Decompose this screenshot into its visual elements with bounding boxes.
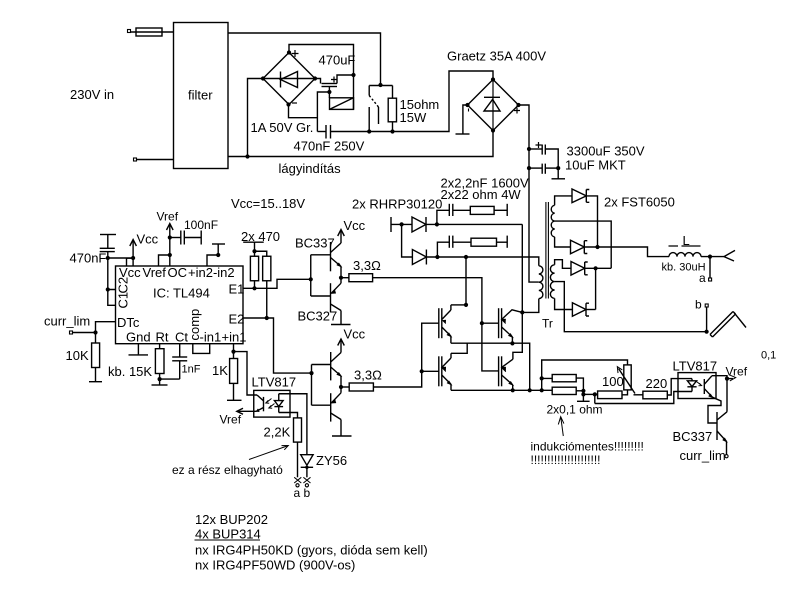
node (right gate riser split) [480, 321, 484, 325]
opto2 phototransistor [704, 376, 713, 398]
wire (bridge2 right to HV cap rail down to primary center tap) [519, 105, 539, 282]
wire (curr_lim to DTc) [73, 322, 116, 333]
node (ZY56 cathode) [305, 466, 308, 469]
IGBT Q1 (top left) [439, 305, 452, 343]
snubber1 riser wire [437, 210, 449, 224]
svg-text:kb. 15K: kb. 15K [108, 364, 152, 379]
capacitor C9 Ct 1nF [172, 344, 187, 379]
node (bridge2 bottom) [491, 128, 495, 132]
transformer secondary B winding (right of core, bottom) [550, 265, 554, 299]
wire (R14 right to sense node) [576, 390, 583, 392]
svg-text:OC: OC [168, 265, 188, 280]
svg-text:L: L [683, 233, 690, 248]
svg-text:2,2K: 2,2K [264, 425, 291, 440]
svg-text:Vcc=15..18V: Vcc=15..18V [231, 196, 305, 211]
diode D5 FST6050 [571, 262, 588, 276]
wire (driver2 emitter junction) [340, 376, 342, 393]
zener ZY56 [301, 455, 313, 478]
signal arrow Vref (feedback) [727, 375, 736, 381]
wire (C1C2 node down, C2 and C1 taps into IC) [108, 258, 116, 305]
opto2 light arrows [697, 382, 702, 386]
wire (D4 cathode through output node to inductor) [584, 247, 669, 257]
wire (R13 right to sense node) [576, 378, 583, 394]
node (driver2 output) [339, 385, 343, 389]
wire (secondary A bottom to D4 anode) [555, 237, 571, 247]
wire (bottom rail filter to bridge2) [228, 131, 493, 157]
wire (secondary B bottom to D6 anode) [555, 298, 573, 309]
node (relay contact top feed) [378, 83, 382, 87]
node (inductor output / a tap) [708, 255, 712, 259]
node (bridge1 left) [261, 76, 265, 80]
wire (D6 cathode to tie line) [586, 309, 596, 311]
svg-text:2x RHRP30120: 2x RHRP30120 [352, 197, 442, 212]
resistor R6 Rt kb.15K [155, 344, 164, 379]
wire (+in2 stub to tie bar) [217, 244, 219, 255]
svg-text:-in1: -in1 [200, 330, 222, 345]
wire (opto1 LED anode to ZY56 branch) [279, 394, 307, 455]
resistor R15 (series under 100) [598, 391, 622, 399]
label + (470uF) [331, 77, 337, 83]
wire (opto2 collector to Vref node) [712, 376, 727, 379]
terminal circle (curr_lim out) [725, 455, 728, 458]
node (emitter rail drop on bottom rail) [528, 388, 532, 392]
wire (470 pair top tie) [255, 242, 267, 256]
resistor R13 0,1 ohm [552, 375, 576, 382]
wire (diode rail1 drop to Q4 collector) [513, 224, 522, 359]
opto2 LED [687, 379, 696, 392]
svg-text:Tr: Tr [542, 317, 553, 331]
emitter rail (top IGBT pair) [451, 343, 530, 390]
transistor Q5 BC337 (driver1 NPN) [331, 242, 342, 271]
resistor R10 470 [263, 256, 271, 281]
node (C1-C2 pin node) [106, 256, 110, 260]
label + (bridge2) [514, 108, 520, 114]
capacitor C5 10uF MKT [529, 164, 558, 174]
wire (D5 cathode to center-tap drop) [585, 267, 612, 269]
svg-text:100nF: 100nF [184, 218, 218, 232]
svg-text:1K: 1K [212, 363, 228, 378]
svg-text:curr_lim: curr_lim [680, 448, 726, 463]
node (sense junction upper) [581, 389, 585, 393]
node (rail1 branch to rail2) [400, 222, 404, 226]
wire (Q9 emitter to curr_lim terminal) [726, 442, 728, 455]
terminal J2 (line input bottom) [134, 158, 137, 161]
label + (3300uF) [536, 142, 542, 148]
wire (R11 to right leg gates riser) [373, 278, 499, 371]
capacitor C6 2,2nF [449, 204, 453, 216]
capacitor C7 2,2nF [449, 236, 453, 248]
wire (plus rail tap to 470uF top plate) [337, 75, 354, 84]
svg-text:2x0,1 ohm: 2x0,1 ohm [547, 403, 603, 417]
wire (a tap down to terminal) [709, 257, 711, 278]
wire (top rail filter to relay drop) [228, 33, 381, 85]
transistor Q6 BC327 (driver1 PNP) [331, 283, 342, 312]
inductor L [669, 253, 701, 257]
resistor R14 0,1 ohm [552, 387, 576, 394]
svg-text:10uF MKT: 10uF MKT [565, 158, 626, 173]
resistor R7 1K [230, 352, 238, 401]
resistor R5 10K [92, 333, 100, 382]
node (Vref pin stub) [168, 253, 172, 257]
wire (lower input to filter) [137, 159, 174, 161]
node (bridge2 left) [465, 103, 469, 107]
wire (snubber2 cap to resistor) [453, 241, 471, 243]
svg-text:LTV817: LTV817 [673, 359, 718, 374]
svg-text:4x BUP314: 4x BUP314 [195, 527, 261, 542]
node (Rt-Ct junction) [158, 377, 162, 381]
diode D3 FST6050 [572, 189, 589, 203]
driver2 input bracket [312, 365, 331, 406]
node (driver2 input) [309, 371, 313, 375]
svg-text:0,1: 0,1 [761, 350, 776, 362]
sense resistor bracket (left ends) [542, 360, 628, 390]
diode D2 RHRP30120 [412, 250, 426, 265]
svg-text:BC337: BC337 [673, 429, 713, 444]
node (470 pair top) [252, 249, 256, 253]
IGBT Q2 (top right) [499, 308, 523, 343]
svg-text:100: 100 [602, 374, 624, 389]
svg-text:C2: C2 [116, 277, 131, 294]
capacitor C1 470nF with open top bar [100, 235, 116, 259]
svg-text:Rt: Rt [156, 330, 169, 345]
wire (secondary A top to D3 anode) [555, 196, 572, 205]
svg-text:nx IRG4PF50WD (900V-os): nx IRG4PF50WD (900V-os) [195, 558, 355, 573]
wire (220 to opto2 LED anode) [667, 379, 692, 395]
node (bridge2 top) [491, 77, 495, 81]
transistor Q7 BC337 (driver2 NPN) [331, 352, 342, 380]
wire (primary bottom to Q2 collector node) [522, 299, 539, 313]
resistor R17 220 [643, 391, 667, 399]
terminal T-bar (100nF right end) [200, 231, 202, 245]
opto1 light arrows [266, 399, 275, 409]
ground (Gnd pin) [129, 354, 149, 356]
wire (Q7 collector to Vcc arrow) [340, 341, 342, 353]
node (Q1 collector / rail2 drop) [464, 303, 468, 307]
svg-text:Gnd: Gnd [126, 330, 151, 345]
IC pin +in1 stub [233, 344, 235, 352]
optocoupler U2 LTV817 box [254, 390, 290, 417]
node (C2 tap) [106, 287, 110, 291]
wire (opto1 LED cathode to 2,2K) [279, 413, 298, 418]
node (+in1 node) [231, 350, 235, 354]
wire (snubber2 resistor to end bar) [497, 241, 508, 243]
node (bottom rail / bridge1 left drop) [245, 154, 249, 158]
capacitor C8 100nF [181, 231, 185, 245]
transformer Tr core [546, 202, 549, 299]
transformer primary winding (left of core) [539, 266, 543, 299]
svg-text:Vcc: Vcc [137, 232, 159, 247]
wire (secondary A center tap) [555, 221, 612, 268]
node (Vref feedback node) [725, 377, 729, 381]
svg-text:Vref: Vref [157, 210, 179, 224]
relay contact S1 [369, 86, 378, 132]
node (Q2 emitter on rail) [510, 341, 514, 345]
node (Q2 collector tie to primary-bottom line) [520, 310, 524, 314]
svg-text:Graetz 35A 400V: Graetz 35A 400V [447, 49, 546, 64]
svg-text:nx IRG4PH50KD (gyors, dióda se: nx IRG4PH50KD (gyors, dióda sem kell) [195, 543, 428, 558]
svg-text:curr_lim: curr_lim [44, 314, 90, 329]
bridge B1 internal diode (pointing left) [263, 72, 315, 88]
filter box [174, 23, 229, 169]
node (curr_lim / 10K junction) [93, 330, 97, 334]
potentiometer R16 100 [617, 365, 635, 394]
work coil rod (slanted element at b) [710, 312, 746, 338]
node (+in2 pin stub) [216, 253, 220, 257]
wire (R15 to pot bottom) [622, 390, 628, 395]
wire (opto1 emitter to Vref arrow) [239, 410, 257, 412]
power arrow Vref (up) [167, 224, 174, 238]
resistor R12 3,3ohm (gate 2) [341, 383, 373, 391]
power arrow Vcc (driver2) [338, 339, 345, 346]
svg-text:470nF 250V: 470nF 250V [294, 139, 365, 154]
relay coil K1 box [330, 98, 354, 110]
terminal T-bar (snubber2 end) [506, 236, 508, 248]
ground (bridge2 left) [456, 105, 470, 134]
wire (soft-start bottom rail left of cap 470nF) [317, 131, 326, 133]
svg-text:15W: 15W [400, 110, 427, 125]
cut mark X (a branch) [294, 477, 301, 483]
transformer secondary A winding (right of core, top) [551, 205, 554, 237]
ground (sense node) [577, 394, 590, 401]
wire (riser to Q3 gate) [422, 370, 439, 372]
node (bridge1 top) [287, 50, 291, 54]
svg-text:E2: E2 [229, 312, 245, 327]
resistor R9 470 [250, 256, 258, 281]
node (cap bank right junction) [556, 166, 560, 170]
terminal T-bar (+in2 tie) [212, 243, 225, 245]
wire (cathode tie down to D6 cathode) [595, 268, 597, 309]
opto1 LED ZY-side [274, 394, 283, 413]
node (rail1 snubber tap) [435, 222, 439, 226]
bottom rail (low side emitters) [451, 389, 552, 391]
wire (pot chain to 220) [634, 394, 643, 396]
node (HV rail 10uF tap) [527, 166, 531, 170]
fuse F1 [131, 28, 174, 36]
bridge B2 internal diode (pointing up) [484, 80, 500, 131]
node (rail2 tap to Q1 collector) [464, 255, 468, 259]
node (R_a left tie) [540, 376, 544, 380]
node (driver1 output) [339, 276, 343, 280]
terminal T-bar (diode rail 1 left end) [390, 217, 392, 232]
capacitor C3 470nF 250V [326, 125, 331, 139]
svg-text:2x22 ohm 4W: 2x22 ohm 4W [441, 187, 522, 202]
diode D4 FST6050 [571, 240, 588, 254]
svg-text:+in2-in2: +in2-in2 [188, 265, 235, 280]
resistor R3 22ohm [470, 206, 494, 214]
IC pin stub (Vref) [159, 255, 170, 266]
svg-text:3,3Ω: 3,3Ω [354, 368, 382, 383]
comp to -in1 jumper loop [193, 344, 210, 354]
wire (b terminal down to b rail node) [706, 307, 708, 332]
wire (D3 cathode to output node) [586, 196, 597, 247]
svg-text:DTc: DTc [117, 315, 140, 330]
IC U1 TL494 box [116, 266, 244, 344]
wire (riser to Q2 gate) [482, 322, 499, 324]
ground (10K) [89, 381, 102, 383]
node (E2 / R 470 bottom) [265, 316, 269, 320]
resistor R8 2,2K [294, 418, 302, 477]
svg-text:!!!!!!!!!!!!!!!!!!!!!: !!!!!!!!!!!!!!!!!!!!! [531, 453, 601, 467]
svg-text:indukciómentes!!!!!!!!!: indukciómentes!!!!!!!!! [531, 440, 644, 454]
wire (rail2 from rail1 down and right) [402, 224, 413, 257]
terminal b [705, 304, 708, 307]
bridge rectifier B1 diamond [263, 53, 315, 105]
wire (relay top bar) [369, 85, 392, 87]
wire (bridge1 right corner to 470uF top plate) [315, 79, 321, 84]
snubber2 riser wire [437, 242, 449, 257]
terminal circle (a) [296, 484, 299, 487]
wire (R9 bottom stem) [254, 281, 256, 289]
transistor Q9 BC337 (curr_lim) [717, 412, 727, 442]
node (sense bracket on bottom rail) [540, 388, 544, 392]
svg-text:Vref: Vref [726, 365, 748, 379]
svg-text:1A 50V Gr.: 1A 50V Gr. [251, 120, 314, 135]
svg-text:Vref: Vref [220, 413, 242, 427]
optocoupler U3 LTV817 box [678, 373, 716, 399]
svg-text:b: b [695, 298, 702, 312]
terminal J1 (line input top) [128, 30, 131, 33]
label + (bridge1) [292, 50, 299, 57]
wire (rail2 tap down to Q1 collector node) [465, 257, 467, 305]
node (Vcc pin top) [131, 256, 135, 260]
node (sense junction lower) [581, 392, 585, 396]
resistor R4 22ohm [471, 238, 497, 246]
terminal circle (b) [305, 484, 308, 487]
power arrow Vcc (IC supply) [130, 240, 137, 259]
node (cap 470uF plus tap on rail) [351, 73, 355, 77]
wire (Q1 collector to rail2 node) [451, 304, 466, 306]
opto1 phototransistor [257, 395, 264, 412]
bridge rectifier B2 Graetz diamond [468, 80, 519, 131]
wire (secondary B center tap down to output b rail) [555, 282, 707, 332]
svg-text:1nF: 1nF [182, 364, 201, 376]
wire (bridge1 top to 470uF plus rail) [289, 45, 354, 110]
svg-text:3,3Ω: 3,3Ω [353, 258, 381, 273]
opto2 LED cathode return [595, 392, 692, 404]
svg-text:IC: TL494: IC: TL494 [153, 286, 210, 301]
node (E1 / R 470 bottom) [252, 286, 256, 290]
diode D1 RHRP30120 [412, 217, 426, 232]
wire (Vref node to 100nF) [170, 237, 181, 239]
ground (Rt) [152, 379, 168, 385]
wire (cap minus node down to relay coil box) [328, 92, 330, 98]
node (D5-D6 cathode tie) [594, 266, 598, 270]
svg-text:220: 220 [646, 376, 668, 391]
svg-text:Vref: Vref [143, 265, 167, 280]
wire (L to open fork) [701, 256, 724, 258]
wire (Q5 collector to Vcc arrow) [340, 231, 342, 243]
wire (+in1 node to opto1 collector) [234, 352, 258, 395]
capacitor C2 470uF electrolytic [322, 84, 338, 87]
svg-text:10K: 10K [66, 348, 89, 363]
node (cap 470uF minus) [327, 90, 331, 94]
wire (sense node to 100 ohm chain) [583, 393, 597, 395]
svg-text:12x BUP202: 12x BUP202 [195, 512, 268, 527]
svg-text:2x FST6050: 2x FST6050 [604, 195, 675, 210]
node (Vref pin junction with 100nF) [168, 235, 172, 239]
node (15ohm bottom on soft rail) [390, 129, 394, 133]
wire (100nF right to open bar) [184, 237, 201, 239]
IC pin stub (Vcc) [127, 258, 134, 266]
svg-text:LTV817: LTV817 [252, 375, 297, 390]
ground (driver2 PNP collector) [332, 420, 352, 437]
driver1 input bracket [311, 255, 331, 296]
ground (driver1 PNP collector) [331, 311, 351, 325]
wire (driver1 emitter junction) [340, 267, 342, 284]
ground (1K) [227, 399, 242, 401]
node (bridge1 bottom) [286, 102, 290, 106]
label - (bridge1) [292, 102, 297, 104]
wire (470uF bottom to minus node, to bridge1 minus and soft-start rail) [289, 87, 330, 132]
node (HV rail 3300uF tap) [527, 147, 531, 151]
cut mark X (b branch) [303, 477, 310, 483]
transistor Q8 BC327 (driver2 PNP) [331, 393, 341, 422]
svg-text:230V in: 230V in [70, 87, 114, 102]
wire (snubber1 resistor to end bar) [494, 209, 507, 211]
annotation arrow (indukciomentes) [558, 417, 564, 436]
node (bridge2 right) [516, 103, 520, 107]
wire (secondary B top to D5 anode) [555, 260, 571, 269]
node (driver1 input) [309, 277, 313, 281]
node (relay left on soft rail) [367, 129, 371, 133]
connector fork (output a) [724, 250, 735, 261]
svg-text:Vcc: Vcc [344, 218, 366, 233]
inductor L dashed core [669, 245, 701, 247]
wire (Vref node down to Q9 collector) [726, 379, 728, 412]
svg-text:E1: E1 [229, 282, 245, 297]
IGBT Q4 (bottom right) [499, 356, 513, 390]
wire (soft-start bottom rail right of cap to bridge2 riser) [331, 71, 494, 132]
signal arrow Vref (left) [237, 408, 243, 414]
svg-text:BC337: BC337 [295, 236, 335, 251]
resistor R2 15ohm 15W [388, 86, 396, 132]
capacitor C4 3300uF 350V [529, 145, 558, 169]
wire (rail2 D2 cathode to primary top) [426, 257, 538, 266]
terminal a [709, 278, 712, 281]
svg-text:filter: filter [188, 88, 213, 103]
node (left gate riser split) [420, 369, 424, 373]
svg-text:a: a [294, 486, 301, 500]
svg-text:C1: C1 [116, 292, 131, 309]
svg-text:a: a [699, 271, 706, 285]
power arrow Vcc (driver1) [338, 230, 345, 237]
wire (bridge1 left corner down to bottom rail) [248, 79, 264, 157]
wire (Q3 collector up to emitter rail) [451, 343, 467, 353]
IC pin Gnd stub [137, 344, 139, 355]
node (rectifier output junction) [595, 245, 599, 249]
ground (cap bank) [552, 168, 566, 179]
svg-text:470nF: 470nF [70, 251, 107, 266]
svg-text:BC327: BC327 [298, 309, 338, 324]
wire (E2 from IC to driver2) [243, 318, 312, 373]
wire (opto2 emitter to BC337 base) [708, 397, 721, 423]
wire (R10 bottom stem) [266, 281, 268, 318]
terminal T-bar (snubber1 end) [506, 204, 508, 216]
node (bridge1 right) [313, 76, 317, 80]
wire (R12 to left leg gates riser) [373, 323, 438, 387]
terminal (curr_lim input) [70, 331, 73, 334]
wire (cap node to Vcc pin) [108, 258, 133, 266]
svg-text:ZY56: ZY56 [316, 453, 347, 468]
svg-text:lágyindítás: lágyindítás [279, 161, 342, 176]
annotation arrow (ez a resz elhagyhato) [249, 446, 288, 460]
node (rail2 snubber tap) [435, 255, 439, 259]
label minus tick (bridge2) [468, 109, 470, 112]
wire (snubber1 cap to resistor) [453, 209, 471, 211]
diode D6 FST6050 [572, 303, 589, 317]
wire (E1 from IC to resistor node and driver1) [243, 279, 311, 288]
wire (Vref node down to pin) [169, 238, 171, 267]
